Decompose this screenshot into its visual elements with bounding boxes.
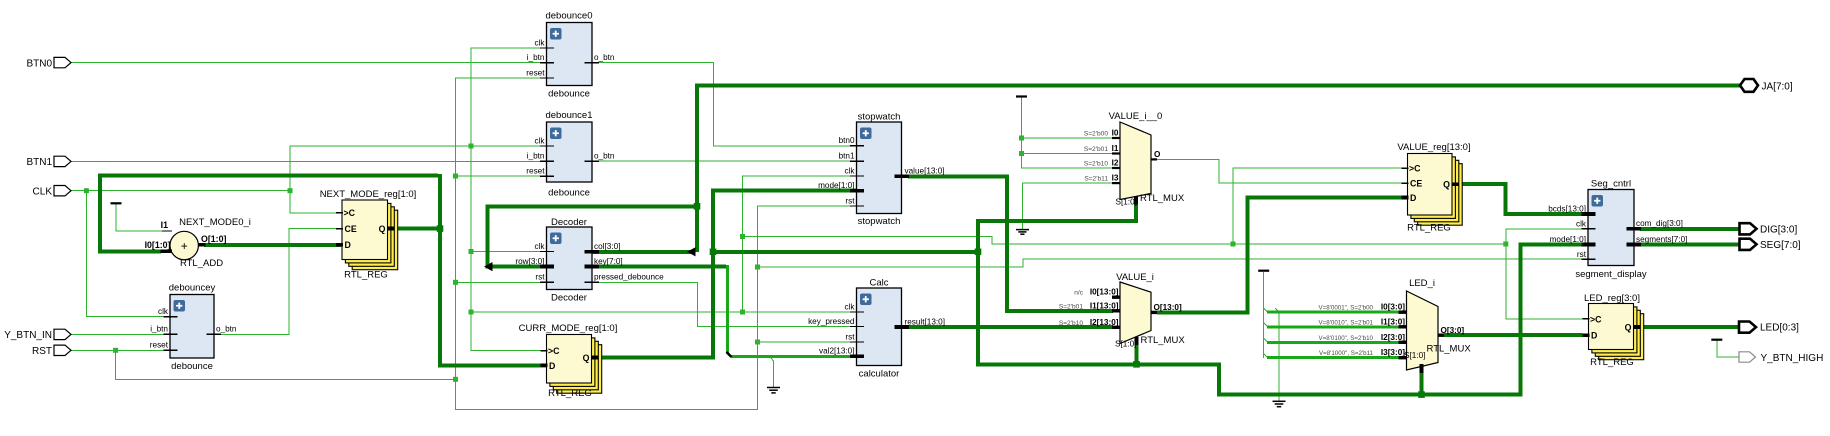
wire rst to Decoder <box>456 281 547 283</box>
svg-text:D: D <box>1591 331 1597 341</box>
svg-text:value[13:0]: value[13:0] <box>905 167 945 176</box>
module Seg_cntrl <box>1548 179 1687 281</box>
svg-text:S=2'b11: S=2'b11 <box>1084 175 1108 182</box>
svg-text:S=2'b10: S=2'b10 <box>1084 160 1109 167</box>
input port Y_BTN_IN <box>4 329 71 341</box>
junction rst x455 Decoder <box>453 280 458 285</box>
wire clk to stopwatch <box>743 176 857 312</box>
junction RST port <box>113 348 118 353</box>
svg-text:I3: I3 <box>1112 174 1119 183</box>
bus mode branch to mux selects and Seg_cntrl <box>713 203 1588 395</box>
input port CLK <box>33 186 71 198</box>
svg-text:o_btn: o_btn <box>594 53 615 62</box>
register CURR_MODE_reg[1:0] <box>519 323 618 399</box>
svg-text:CE: CE <box>345 224 357 234</box>
svg-text:debounce1: debounce1 <box>545 110 592 121</box>
svg-text:Q: Q <box>1625 322 1632 332</box>
arrowhead into Decoder row <box>484 262 493 271</box>
junction clk VALUE_reg C <box>1231 242 1236 247</box>
svg-text:reset: reset <box>150 341 169 350</box>
bus Decoder key to Calc val2 <box>598 265 857 356</box>
mux VALUE_i__0 <box>1084 111 1185 206</box>
power const for VALUE_i__0 <box>1016 95 1027 97</box>
svg-text:clk: clk <box>1576 219 1587 228</box>
junction clk stopwatch rail <box>740 310 745 315</box>
svg-text:V=8'0001", S=2'b00: V=8'0001", S=2'b00 <box>1319 305 1374 312</box>
svg-text:S=2'b01: S=2'b01 <box>1059 303 1084 310</box>
svg-text:RST: RST <box>32 346 52 357</box>
svg-text:Q: Q <box>583 353 590 363</box>
svg-text:n/c: n/c <box>1074 290 1083 297</box>
svg-text:DIG[3:0]: DIG[3:0] <box>1760 224 1797 235</box>
svg-text:LED_reg[3:0]: LED_reg[3:0] <box>1584 293 1640 304</box>
junction bold mode x713 <box>710 249 717 256</box>
bus adder O to NEXT_MODE_reg D <box>204 243 341 247</box>
svg-text:I0[1:0]: I0[1:0] <box>145 240 171 250</box>
svg-text:V=8'0010", S=2'b01: V=8'0010", S=2'b01 <box>1319 319 1374 326</box>
svg-text:D: D <box>1410 193 1416 203</box>
junction bold mode x978 <box>975 249 982 256</box>
svg-text:>C: >C <box>344 208 356 218</box>
wire clk rail to Calc <box>471 311 857 313</box>
adder NEXT_MODE0_i RTL_ADD <box>145 217 251 269</box>
wire VALUE_i__0 O to VALUE_reg CE <box>1156 159 1406 183</box>
bus VALUE_reg Q to Seg_cntrl bcds <box>1458 184 1588 214</box>
register VALUE_reg[13:0] <box>1397 142 1470 234</box>
svg-text:mode[1:0]: mode[1:0] <box>1550 235 1586 244</box>
wire clk x471 trunk <box>471 48 547 351</box>
svg-text:LED_i: LED_i <box>1409 278 1435 289</box>
svg-text:O[1:0]: O[1:0] <box>201 234 226 244</box>
svg-text:BTN1: BTN1 <box>26 157 52 168</box>
bus VALUE_i O to VALUE_reg D <box>1157 198 1406 313</box>
svg-text:CE: CE <box>1410 179 1422 189</box>
wire rst x455 trunk <box>456 78 857 410</box>
bus LED_i constant inputs <box>1267 312 1407 358</box>
svg-text:I0[13:0]: I0[13:0] <box>1090 288 1119 297</box>
junction const VALUE_i__0 I0 <box>1019 136 1024 141</box>
svg-text:S=2'b10: S=2'b10 <box>1059 320 1084 327</box>
svg-text:I0[3:0]: I0[3:0] <box>1381 303 1405 312</box>
wire RST net <box>71 349 170 351</box>
svg-text:clk: clk <box>534 242 545 251</box>
junction clk x471 Decoder <box>469 249 474 254</box>
svg-text:rst: rst <box>535 273 545 282</box>
svg-text:RTL_REG: RTL_REG <box>1590 357 1634 368</box>
svg-text:clk: clk <box>844 166 855 175</box>
bus stopwatch value to VALUE_i I1 <box>908 176 1113 310</box>
wire clk to Seg_cntrl and LED_reg C <box>1506 229 1588 319</box>
input port BTN0 <box>26 57 71 69</box>
module Decoder <box>515 217 664 304</box>
svg-text:RTL_MUX: RTL_MUX <box>1427 344 1472 355</box>
junction rst x757 right branch <box>755 265 760 270</box>
svg-text:Y_BTN_IN: Y_BTN_IN <box>4 330 52 341</box>
bus LED_i O to LED_reg D <box>1444 333 1583 337</box>
module stopwatch <box>818 112 944 228</box>
bus JA net with Decoder row and col <box>488 85 1740 266</box>
svg-text:stopwatch: stopwatch <box>858 112 901 123</box>
junction bold JA row <box>694 203 701 210</box>
svg-text:RTL_ADD: RTL_ADD <box>180 258 223 269</box>
svg-text:I1[3:0]: I1[3:0] <box>1381 317 1405 326</box>
register NEXT_MODE_reg[1:0] <box>320 189 417 281</box>
svg-text:clk: clk <box>534 38 545 47</box>
svg-text:S[1:0]: S[1:0] <box>1116 197 1137 206</box>
svg-text:I2[3:0]: I2[3:0] <box>1381 333 1405 342</box>
svg-text:stopwatch: stopwatch <box>858 216 901 227</box>
svg-text:Calc: Calc <box>869 278 888 289</box>
svg-text:CURR_MODE_reg[1:0]: CURR_MODE_reg[1:0] <box>519 323 618 334</box>
svg-text:Y_BTN_HIGH: Y_BTN_HIGH <box>1761 353 1824 364</box>
svg-text:S=2'b01: S=2'b01 <box>1084 146 1109 153</box>
svg-text:Q: Q <box>379 224 386 234</box>
svg-text:Q: Q <box>1443 180 1450 190</box>
wire BTN1 net <box>71 160 547 162</box>
svg-text:LED[0:3]: LED[0:3] <box>1760 323 1799 334</box>
svg-text:reset: reset <box>526 68 545 77</box>
register LED_reg[3:0] <box>1583 293 1644 368</box>
svg-text:key_pressed: key_pressed <box>808 317 855 326</box>
wire debounce1 o_btn to stopwatch btn1 <box>592 160 857 162</box>
svg-text:Decoder: Decoder <box>551 293 587 304</box>
module debounce1 <box>526 110 615 199</box>
inout port JA[7:0] <box>1740 79 1793 92</box>
power const for LED_i <box>1258 270 1269 272</box>
svg-text:>C: >C <box>1409 164 1421 174</box>
junction rst x757 Calc <box>755 340 760 345</box>
svg-text:btn1: btn1 <box>839 152 855 161</box>
wire const column for LED_i inputs <box>1264 272 1268 358</box>
svg-text:calculator: calculator <box>859 369 900 380</box>
wire gnd to VALUE_i__0 I3 <box>1022 183 1113 229</box>
svg-text:Seg_cntrl: Seg_cntrl <box>1591 179 1631 190</box>
wire Y_BTN_IN net <box>71 333 170 335</box>
svg-text:O: O <box>1154 150 1161 159</box>
svg-text:reset: reset <box>526 167 545 176</box>
ground below Calc area <box>767 388 780 393</box>
wire clk to VALUE_reg C <box>1233 168 1406 244</box>
svg-text:VALUE_reg[13:0]: VALUE_reg[13:0] <box>1397 142 1470 153</box>
junction bold VALUE_i S <box>1133 361 1140 368</box>
svg-text:I1: I1 <box>1112 144 1119 153</box>
bus Seg_cntrl segments to SEG port <box>1640 243 1740 247</box>
svg-text:clk: clk <box>534 136 545 145</box>
svg-text:I1: I1 <box>161 220 168 230</box>
svg-text:i_btn: i_btn <box>150 325 168 334</box>
svg-text:VALUE_i__0: VALUE_i__0 <box>1109 111 1163 122</box>
svg-text:debounce0: debounce0 <box>545 11 592 22</box>
bus LED_reg Q to LED port <box>1640 325 1740 329</box>
svg-text:i_btn: i_btn <box>527 53 545 62</box>
svg-text:S[1:0]: S[1:0] <box>1115 340 1136 349</box>
junction const VALUE_i__0 I1 <box>1019 151 1024 156</box>
bevel black corner key-val2 <box>727 352 732 357</box>
wire clk to debouncey via x86 <box>86 191 170 317</box>
wire clk to debounce1 <box>471 145 547 147</box>
junction clk x471 debounce1 <box>469 144 474 149</box>
svg-text:JA[7:0]: JA[7:0] <box>1762 81 1793 92</box>
wire gnd column for LED_i <box>1275 308 1279 400</box>
wire clk to Decoder <box>471 251 547 253</box>
svg-text:BTN0: BTN0 <box>26 58 52 69</box>
svg-text:>C: >C <box>1590 314 1602 324</box>
junction CLK at port <box>84 188 89 193</box>
junction clk x471 rail <box>469 310 474 315</box>
svg-text:mode[1:0]: mode[1:0] <box>818 181 854 190</box>
svg-text:col[3:0]: col[3:0] <box>594 242 620 251</box>
svg-text:I2: I2 <box>1112 159 1119 168</box>
wire clk x290 column to NEXT_MODE_reg C and jog to x471 <box>290 146 471 213</box>
svg-text:clk: clk <box>844 302 855 311</box>
junction bold LED_i S <box>1418 391 1425 398</box>
svg-text:RTL_REG: RTL_REG <box>548 388 592 399</box>
svg-text:rst: rst <box>1577 250 1587 259</box>
svg-text:S=2'b00: S=2'b00 <box>1084 130 1109 137</box>
svg-text:S[1:0]: S[1:0] <box>1404 351 1425 360</box>
output port Y_BTN_HIGH <box>1739 352 1823 364</box>
wire const to VALUE_i__0 I0 I1 I2 <box>1022 98 1114 169</box>
junction clk Seg branch <box>1503 242 1508 247</box>
module debouncey <box>150 283 237 373</box>
wire CLK main horizontal <box>71 190 290 192</box>
svg-text:segments[7:0]: segments[7:0] <box>1636 235 1687 244</box>
wire pressed_debounce to Calc key_pressed <box>592 282 857 326</box>
svg-text:RTL_MUX: RTL_MUX <box>1141 335 1186 346</box>
svg-text:RTL_REG: RTL_REG <box>344 270 388 281</box>
svg-text:debouncey: debouncey <box>169 283 216 294</box>
svg-text:btn0: btn0 <box>839 136 855 145</box>
wire debouncey o_btn to NEXT_MODE_reg CE <box>214 229 342 335</box>
mux VALUE_i <box>1059 272 1186 349</box>
module debounce0 <box>526 11 615 100</box>
junction clk right branch <box>740 234 745 239</box>
svg-text:debounce: debounce <box>548 89 590 100</box>
output port DIG[3:0] <box>1740 223 1798 235</box>
svg-text:com_dig[3:0]: com_dig[3:0] <box>1636 219 1683 228</box>
bus Seg_cntrl com_dig to DIG port <box>1640 227 1740 231</box>
junction clk at x290 <box>288 188 293 193</box>
wire const1 to adder I1 <box>116 203 171 231</box>
wire clk right distribution <box>743 237 1507 245</box>
svg-text:Decoder: Decoder <box>551 217 587 228</box>
svg-text:O[3:0]: O[3:0] <box>1441 326 1465 335</box>
svg-text:key[7:0]: key[7:0] <box>594 257 623 266</box>
arrowhead at Decoder col end <box>687 247 696 256</box>
svg-text:debounce: debounce <box>548 188 590 199</box>
bus NEXT_MODE feedback loop Q to adder I0 and CURR_MODE D <box>100 174 547 365</box>
junction rst x455 debounce1 <box>453 174 458 179</box>
svg-text:rst: rst <box>845 332 855 341</box>
module Calc <box>808 278 945 380</box>
wire rst to Calc <box>758 341 857 343</box>
junction rst x455 bottom <box>453 377 458 382</box>
svg-text:I0: I0 <box>1112 129 1119 138</box>
svg-text:I1[13:0]: I1[13:0] <box>1090 301 1119 310</box>
svg-text:i_btn: i_btn <box>527 152 545 161</box>
svg-text:pressed_debounce: pressed_debounce <box>594 273 664 282</box>
svg-text:clk: clk <box>158 307 169 316</box>
svg-text:I2[13:0]: I2[13:0] <box>1090 318 1119 327</box>
svg-text:row[3:0]: row[3:0] <box>515 257 544 266</box>
bus CURR_MODE Q mode net to stopwatch <box>598 191 857 358</box>
svg-text:RTL_MUX: RTL_MUX <box>1140 193 1185 204</box>
wire const1 to Y_BTN_HIGH <box>1717 340 1739 357</box>
svg-text:segment_display: segment_display <box>1575 269 1647 280</box>
wire debounce0 o_btn to stopwatch btn0 <box>592 63 857 146</box>
svg-text:VALUE_i: VALUE_i <box>1116 272 1154 283</box>
svg-text:D: D <box>549 361 555 371</box>
junction bold NEXT_MODE Q <box>437 225 444 232</box>
mux LED_i <box>1319 278 1472 373</box>
ground for LED_i constants <box>1273 401 1286 406</box>
svg-text:NEXT_MODE0_i: NEXT_MODE0_i <box>179 217 251 228</box>
wire rst down from RST junction <box>116 350 456 379</box>
power const1 for adder I1 <box>111 202 122 204</box>
svg-text:V=8'0100", S=2'b10: V=8'0100", S=2'b10 <box>1319 335 1374 342</box>
wire rst right distribution to Seg_cntrl <box>758 259 1589 267</box>
power const1 for Y_BTN_HIGH <box>1711 339 1722 341</box>
input port RST <box>32 345 71 357</box>
svg-text:RTL_REG: RTL_REG <box>1407 223 1451 234</box>
svg-text:D: D <box>345 240 351 250</box>
input port BTN1 <box>26 156 71 168</box>
svg-text:rst: rst <box>845 196 855 205</box>
svg-text:o_btn: o_btn <box>594 152 615 161</box>
svg-text:+: + <box>181 239 188 253</box>
output port LED[0:3] <box>1739 322 1799 334</box>
svg-text:debounce: debounce <box>171 361 213 372</box>
ground below VALUE_i__0 <box>1016 230 1029 235</box>
svg-text:bcds[13:0]: bcds[13:0] <box>1548 204 1586 213</box>
wire gnd tap below val2 bus <box>771 357 774 387</box>
svg-text:NEXT_MODE_reg[1:0]: NEXT_MODE_reg[1:0] <box>320 189 417 200</box>
output port SEG[7:0] <box>1740 239 1801 251</box>
svg-text:O[13:0]: O[13:0] <box>1154 303 1182 312</box>
svg-text:result[13:0]: result[13:0] <box>905 317 946 326</box>
wire BTN0 net <box>71 62 547 64</box>
bus Calc result to VALUE_i I2 <box>908 325 1113 329</box>
svg-text:o_btn: o_btn <box>216 325 237 334</box>
svg-text:CLK: CLK <box>33 186 53 197</box>
svg-text:V=8'1000", S=2'b11: V=8'1000", S=2'b11 <box>1319 350 1374 357</box>
svg-text:val2[13:0]: val2[13:0] <box>819 347 855 356</box>
svg-text:I3[3:0]: I3[3:0] <box>1381 348 1405 357</box>
svg-text:>C: >C <box>548 346 560 356</box>
wire rst to debounce1 <box>456 175 547 177</box>
svg-text:SEG[7:0]: SEG[7:0] <box>1760 240 1801 251</box>
